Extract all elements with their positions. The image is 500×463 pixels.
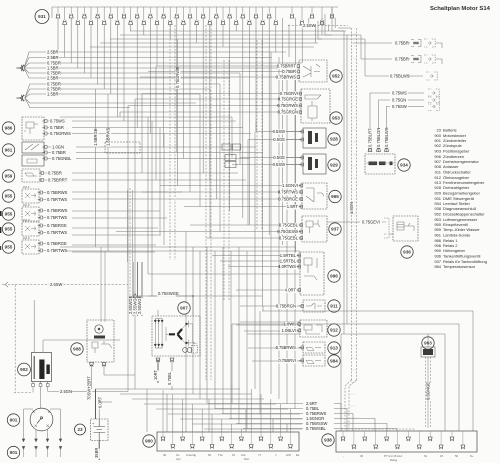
928 body [303,128,326,148]
svg-text:911: 911 [330,304,338,309]
wire: horizontal y=84 [72,83,220,85]
svg-text:1.5BRGE: 1.5BRGE [93,128,98,146]
reference mark sensor 929 reference circle [328,159,340,171]
ignition coil 902 body [32,353,52,382]
distributor 901 reference circle [7,414,19,426]
wire: 934 0.75BLWS [387,107,391,153]
pin 16 of 931 [155,20,160,24]
svg-text:0.75BRWS: 0.75BRWS [276,74,297,79]
svg-text:2.5SW: 2.5SW [303,23,316,28]
label 0.75GESW [277,229,299,235]
label 0.75SW [391,104,407,110]
wire: component feed y=71.5 [148,71,297,73]
wire: horizontal y=252 [72,251,155,253]
903 body outline [421,347,435,357]
pin 8 of 931 [102,20,107,24]
pin of 955 #2 (0.75RTWS) [38,216,43,219]
pin 27 of 931 [227,14,232,18]
svg-text:Öldruckschalter: Öldruckschalter [443,170,471,175]
svg-text:0.75BL: 0.75BL [167,371,172,385]
pin of 934 (0.75BLGN) [376,147,381,151]
wire: vertical x=164 [163,134,165,246]
svg-text:953: 953 [332,116,340,121]
svg-text:Drehzahlgeber: Drehzahlgeber [443,185,470,190]
svg-text:902: 902 [20,367,28,372]
alternator diode bus verticals [154,324,156,343]
902 secondary winding bar [46,365,49,375]
svg-text:984: 984 [330,359,338,364]
spark plug 906 double arrow x=60.5 [59,439,62,457]
svg-text:15: 15 [440,454,444,458]
wire: 931 pin stub 5 [83,7,85,14]
wire: horizontal y=247 [60,246,296,248]
wire: 931 pin stub 36 [301,7,303,20]
shielded cable dashed x=229 [228,60,230,300]
pin 20 of 931 [181,20,186,24]
wire: vertical x=271 [270,52,272,394]
pin of 996 (1.5RTBL) [296,254,301,257]
label 0.75BLWS [389,74,410,80]
wire: vertical x=186 [185,232,187,390]
wire: 902 feed 1 [33,300,35,353]
wire: 931 pin stub 28 [235,7,237,20]
pin 30 of 931 [247,20,252,24]
pin of 938 #11 [450,437,455,441]
wire: lower right route 1 [262,311,473,431]
pin 18 of 931 [168,20,173,24]
svg-text:0.75GEBL: 0.75GEBL [279,235,299,240]
injector 955 #1 valve symbol [25,193,36,198]
937 body [302,216,327,242]
label 1.0BLVI [280,328,297,334]
wire: label 0.75BRWS down to 938 pin [334,414,353,432]
svg-text:908: 908 [434,164,441,169]
svg-text:0.75BRGE: 0.75BRGE [47,241,67,246]
ground arrow near alternator [133,293,136,300]
wire: 937 to 936 (0.75GEVI) [327,221,384,223]
plug connector (0.75BLWS) [426,72,437,80]
wire: drop from 931 pin 23 [202,18,204,173]
wire: into 900 pin 12 [270,399,272,432]
pin of 955 #3 (0.75RTWS) [38,231,43,234]
pin of 952 (0.75BRWS) [295,76,300,79]
svg-text:937: 937 [331,227,339,232]
wire: drop from 931 pin 14 [143,25,145,36]
pin of 955 #4 (0.75RTWS) [38,249,43,252]
pin 6 of 931 [89,20,94,24]
wire: component feed y=112 [120,111,301,113]
spark plug 906 double arrow x=47.5 [46,439,49,457]
wire: component feed y=348 [248,347,303,349]
wire: horizontal y=211 [72,210,160,212]
distributor 901 body [30,408,53,431]
wire: starter 50 down [91,364,93,389]
913 resistor symbol [306,348,321,351]
svg-text:10RT: 10RT [153,369,158,380]
wire: component feed y=131.5 [256,131,303,133]
battery 23 reference circle [75,424,86,435]
label 0.75BRGE [46,241,67,247]
svg-text:0.75BR: 0.75BR [282,69,296,74]
pin of 900 #7 [220,437,225,441]
wire: to label 0.75WSBL [243,428,303,430]
959 body [22,169,40,182]
wire: horizontal y=78 [72,77,230,79]
wire: bottom vertical x=246 [245,409,247,432]
svg-text:1.5RTBL: 1.5RTBL [280,258,297,263]
911 switch symbol [306,303,322,309]
svg-text:Schaltplan Motor S14: Schaltplan Motor S14 [430,6,491,12]
label 0.75GNBL [51,156,72,162]
pin of 965 (1.5RT) [298,205,303,208]
wire: vertical x=295 [294,68,296,409]
wire: component feed y=322 [240,321,300,323]
984 body [303,355,325,366]
961 upper body [22,142,44,153]
label 0.75BR [47,170,62,176]
pin of 938 #10 [439,445,444,449]
wire: bottom vertical x=287 [286,424,288,432]
wire: label 2.5RT down to 938 pin [334,404,341,432]
connector inline (0.75BR row 2) [411,56,421,63]
wire: into 900 pin 2 [172,394,174,432]
label 2.5SWGE (vertical) [137,295,143,314]
wire: drop from 931 pin 5 [83,18,85,73]
svg-text:1.0GN: 1.0GN [52,144,64,149]
pin 5 of 931 [82,14,87,18]
svg-text:931: 931 [38,14,46,19]
pin 37 of 931 [310,14,315,18]
injector 955 #1 reference circle [2,190,14,202]
svg-text:E1: E1 [296,453,300,457]
label 0.75BR [46,60,61,66]
wire: drop from 931 pin 40 [314,25,316,44]
second 901 reference circle [7,446,19,458]
pin of 900 #6 [210,445,215,449]
wire: drop from 931 pin 26 [222,25,224,48]
pin of 965 (0.75BRGE) [298,198,303,201]
label 0.75RTWS [46,230,67,236]
pin 4 of 931 [76,20,81,24]
wire: 931 pin stub 34 [275,7,277,20]
svg-text:Anlasser: Anlasser [443,164,459,169]
label 6.0RT (vertical) [98,396,104,408]
wire: 931 pin stub 10 [116,7,118,20]
902 primary winding bar [39,360,44,380]
wire: 931 pin stub 26 [222,7,224,20]
pin of 938 #6 [395,445,400,449]
idle actuator 934 body [365,154,395,174]
label 0.75GEBL [279,222,299,228]
pin of 952 (0.75BRRT) [295,65,300,68]
wire: vertical x=256 [255,121,257,132]
wire: vertical x=287 [286,63,288,404]
battery 23 body [91,419,109,441]
pin 19 of 931 [175,14,180,18]
label 0.75BRRT [277,63,297,69]
wire: component feed y=139.5 [248,139,303,141]
wire: horizontal y=94 [72,93,200,95]
ground point G1 [17,65,25,72]
label 0.75BRGN [276,303,297,309]
pin of 937 (0.75GEBL) [298,237,303,240]
pin of 961 (1.0GN) [42,146,47,149]
wire: bottom vertical x=167 [166,394,168,432]
wire: drop from 931 pin 39 [308,18,310,26]
wire: 902 feed 2 [42,340,44,353]
svg-text:0.75GRWS: 0.75GRWS [50,131,71,136]
pin of 953 (0.75GRVI) [297,92,302,95]
934 reference circle [398,159,410,171]
svg-text:961: 961 [5,148,13,153]
wire: component feed y=105.5 [128,105,301,107]
wire: drop from 931 pin 24 [209,25,211,181]
wire: drop from 931 pin 43 [334,18,336,28]
wire: drop from 931 pin 18 [169,25,171,40]
label 0.75RTWS [46,215,67,221]
wire: vertical x=263 [262,306,264,311]
injector 955 #4 reference circle [2,241,14,253]
wire: spark plug lead x=47.5 [47,430,49,443]
wire: 931 pin stub 32 [262,7,264,20]
label 0.5SW [273,129,286,135]
wire: feed to 908 x=101 [100,247,102,322]
wire: drop from 931 pin 30 [248,25,250,226]
wire: row1 tail [436,43,442,48]
wire: to label 0.75WSSW [236,423,303,425]
wire: 0.75GN to connector [408,99,424,101]
wire: into 900 pin 13 [280,404,282,432]
wire: 2.5SWGE feed 1 [132,262,134,316]
wire: horizontal y=63 [72,62,302,64]
oil level sender 912 reference circle [328,324,340,336]
wire: vertical x=200 [199,251,201,399]
starter 908 body [87,320,114,362]
svg-text:0.75GRVI: 0.75GRVI [280,91,298,96]
wire: vertical x=160 [159,128,161,236]
throttle switch 952 body [299,60,327,82]
injector 955 #2 body [22,207,39,221]
pin 2 of 931 [62,20,67,24]
svg-text:15: 15 [232,453,236,457]
svg-text:4.0RTWS: 4.0RTWS [278,264,296,269]
pin of 913 [299,346,304,349]
svg-text:2.5SWGE: 2.5SWGE [137,295,142,314]
label 1.0GN (vertical) [349,202,355,215]
distributor cap contacts [33,411,51,427]
svg-text:Dist.: Dist. [244,457,250,461]
961 heater symbol [25,144,39,150]
svg-text:955: 955 [5,245,13,250]
wire: drop from 931 pin 34 [275,25,277,53]
ignition coil 902 reference circle [18,363,31,376]
wire: 931 pin stub 11 [123,7,125,14]
label 0.75GEBL [279,235,299,241]
pin of 900 #4 [190,445,195,449]
wire: 2.5SW dashed boundary horizontal [8,284,128,286]
alternator diodes lower [154,344,157,347]
plug connector (0.75GN) [428,96,439,104]
wire: component feed y=99 [135,98,301,100]
wire: ground fan G1 to 2.5BR at y=57.5 [24,58,72,69]
wire: to 0.75BR connector 2 [361,58,410,60]
svg-text:30: 30 [360,454,364,458]
902 condenser line [33,356,35,379]
wire: horizontal y=158.5 [76,158,250,160]
wire: coil terminal 4 to distributor [40,387,42,409]
pin of 938 #8 [417,445,422,449]
pin 7 of 931 [95,14,100,18]
wire: component feed y=185.5 [160,185,302,187]
pin of 912 (1.0BLVI) [296,329,301,332]
svg-text:907: 907 [180,306,188,311]
label 10RT (vertical) [153,369,159,380]
svg-text:902: 902 [434,143,441,148]
996 body [300,252,324,295]
wire: horizontal y=199 [72,198,174,200]
svg-text:Diagnoseanschluß: Diagnoseanschluß [443,206,477,211]
position sensor 903 reference circle [422,337,434,349]
svg-text:0.5GE: 0.5GE [273,137,285,142]
label 0.75RTWS [46,197,67,203]
wire: 2.5SWGE feed 3 [141,262,143,316]
svg-text:911: 911 [435,170,442,175]
dashed boundary corner [14,392,31,394]
wire: drop from 931 pin 41 [321,18,323,35]
label 0.75WS [391,91,407,97]
svg-text:961: 961 [434,233,441,238]
svg-text:Zyl.4: Zyl.4 [23,236,30,240]
label 4.0RT [284,287,296,293]
svg-text:Temperatursensor: Temperatursensor [443,264,476,269]
injector 955 #3 valve symbol [25,226,36,231]
wire: horizontal y=147 [76,146,256,148]
wire: 931 pin stub 9 [110,7,112,14]
wire: vertical x=232 [231,117,233,158]
wire: horizontal y=235 [72,234,161,236]
pin of 955 #2 (0.75BRWS) [38,209,43,212]
wire: bottom mesh y=399 [132,398,264,400]
wire: vertical x=231 [230,251,232,419]
wire: component feed y=164.5 [232,164,303,166]
label 70SW+25RT (vertical) [87,376,93,401]
svg-text:901: 901 [10,418,18,423]
label 0.75BR [46,81,61,87]
svg-text:955: 955 [5,212,13,217]
shielded cable dashed x=257 [256,40,258,230]
label 0.75GRWS [49,131,71,137]
svg-text:Zyl.2: Zyl.2 [23,203,30,207]
wire: spark plug lead x=36 [35,430,37,443]
wire: horizontal y=245 [72,244,156,246]
inline connector on 1.0GN line [222,144,231,150]
pin of 908 (term 30) [102,363,107,367]
936 reference circle [401,246,413,258]
svg-text:0.75WS: 0.75WS [392,91,407,96]
label 2.5SW [49,282,62,288]
svg-text:0.75BLWS: 0.75BLWS [384,127,389,147]
label 0.75BRWS [305,411,326,417]
961 lower body [22,155,44,166]
label 0.75BR [46,86,61,92]
pin of 959 (0.75BR) [39,172,44,175]
starter motor symbol [95,325,103,333]
wire: vertical x=247 [246,251,248,429]
965 internal contacts [306,188,324,202]
label 1.5BR [46,65,58,71]
wire: 931 pin stub 17 [163,7,165,14]
svg-text:0.75BRGE: 0.75BRGE [278,196,298,201]
wire: 931 pin stub 13 [136,7,138,14]
label 0.75GRWS [277,103,299,109]
pin 17 of 931 [161,14,166,18]
pin of 953 (0.75GRWS) [297,104,302,107]
wire: 931 pin stub 31 [255,7,257,14]
wire: vertical x=156 [155,66,157,180]
wire: drop from 931 pin 25 [215,18,217,199]
svg-text:934: 934 [400,163,408,168]
svg-text:70SW+25RT: 70SW+25RT [87,376,92,400]
pin 13 of 931 [135,14,140,18]
wire: label 0.75BL down to 938 pin [334,409,347,432]
wire: drop from 931 pin 1 [57,18,59,52]
label 2.5BR [46,49,58,55]
svg-text:1.5BR: 1.5BR [47,91,59,96]
wire: into 900 pin 8 [231,424,233,432]
wire: horizontal y=47 [90,46,314,48]
wire: ground fan G1 to 0.75BR at y=73 [24,68,72,73]
wire: vertical x=239 [238,247,240,424]
wire: drop from 931 pin 8 [103,25,105,90]
svg-text:929: 929 [434,191,441,196]
alternator diodes upper [154,320,157,323]
wire: 902 feed 2 horizontal [43,339,120,341]
svg-text:0.75BLRT: 0.75BLRT [368,128,373,147]
svg-text:0.75SW: 0.75SW [392,104,407,109]
wire: 1.5BRGE vertical [95,89,97,247]
wire: bottom vertical x=209 [208,399,210,432]
pin 9 of 931 [109,14,114,18]
diagnosis connector 938 reference circle [322,434,334,446]
wire: drop from 931 pin 11 [123,18,125,121]
wire: to label 0.75BL [215,408,303,410]
svg-text:0.75BRGN: 0.75BRGN [276,303,296,308]
svg-text:0.75BLWS: 0.75BLWS [390,74,410,79]
label 0.75BL (vertical) [167,371,173,386]
pin of 955 #3 (0.75BRGE) [38,224,43,227]
svg-text:1.5RT: 1.5RT [287,204,299,209]
wire: 931 pin stub 24 [209,7,211,20]
wire: 931 pin stub 1 [57,7,59,14]
label 1.0GN [51,144,64,150]
connector strip 938 body [336,431,477,452]
svg-text:0.75BRRT: 0.75BRRT [277,63,297,68]
svg-text:60: 60 [208,453,212,457]
pin 28 of 931 [234,20,239,24]
svg-text:900: 900 [145,439,153,444]
pin of 900 #3 [180,437,185,441]
svg-text:996: 996 [330,274,338,279]
svg-text:35BR: 35BR [94,448,99,458]
label 0.75RTWS [46,248,67,254]
pin of 908 (term 50) [89,363,94,367]
svg-text:The: The [218,453,223,457]
wire: vertical x=365 [364,39,366,76]
svg-text:50: 50 [455,454,459,458]
912 body [300,320,327,337]
pin of 955 #1 (0.75RTWS) [38,198,43,201]
pin 35 of 931 [290,14,295,18]
